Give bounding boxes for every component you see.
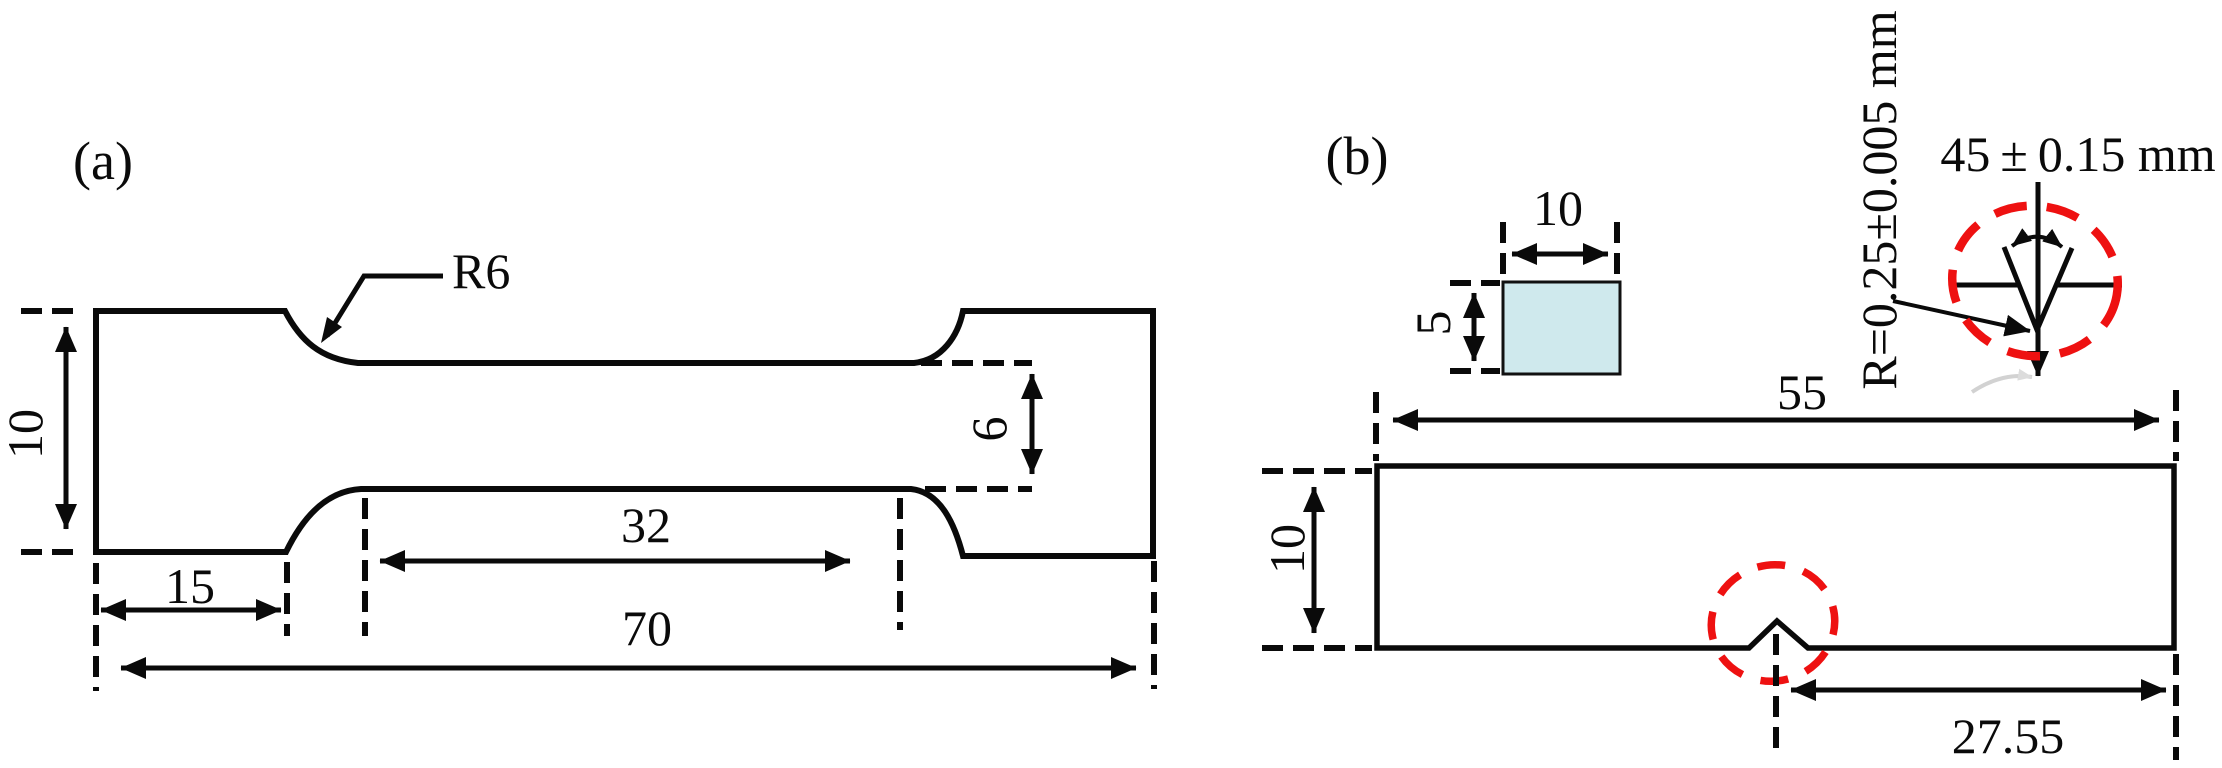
svg-text:10: 10 [1259, 524, 1315, 574]
svg-text:R6: R6 [452, 243, 510, 299]
extension dash vertical x1154 [1151, 561, 1157, 689]
notch center dashed line [1773, 634, 1779, 758]
extension dash square 5 bottom [1450, 368, 1500, 374]
extension dash square 10 left [1500, 222, 1506, 276]
dimension 32 arrow [380, 559, 850, 564]
svg-text:5: 5 [1405, 311, 1461, 336]
dimension square 5 arrow [1472, 293, 1477, 361]
svg-text:(a): (a) [73, 131, 133, 191]
dimension 6 arrow [1030, 374, 1035, 474]
svg-text:15: 15 [165, 558, 215, 614]
specimen outline (a) dogbone [96, 311, 1153, 556]
red dashed circle around notch [1698, 551, 1848, 695]
extension dash vertical x900 [897, 498, 903, 630]
extension dash gauge bottom right [925, 486, 1032, 492]
extension dash 55 left [1373, 392, 1379, 461]
dimension 70 arrow [121, 666, 1136, 671]
extension dash 10b bottom [1262, 645, 1372, 651]
extension dash right lower [2173, 654, 2179, 760]
specimen bar (b) with V-notch [1377, 466, 2174, 648]
dimension 10b arrow [1312, 487, 1317, 633]
notch detail vertical arrow 45deg [2036, 182, 2041, 376]
extension dash square 10 right [1614, 222, 1620, 276]
svg-text:10: 10 [1533, 180, 1583, 236]
notch detail angle arc [2012, 237, 2062, 247]
extension dash vertical x96 [93, 563, 99, 691]
svg-text:45 ± 0.15 mm: 45 ± 0.15 mm [1940, 126, 2215, 182]
svg-text:55: 55 [1777, 364, 1827, 420]
notch detail V arms [2004, 247, 2072, 330]
svg-text:32: 32 [621, 497, 671, 553]
dimension 15 arrow [101, 608, 281, 613]
svg-text:10: 10 [0, 409, 53, 459]
svg-text:27.55: 27.55 [1952, 708, 2065, 764]
svg-text:(b): (b) [1326, 126, 1389, 186]
dimension square 10 arrow [1512, 252, 1608, 257]
extension dash vertical x365 [362, 498, 368, 636]
leader R=0.25 [1893, 301, 2030, 331]
svg-text:6: 6 [961, 417, 1017, 442]
extension dash 10b top [1262, 468, 1372, 474]
dimension 10 (a) arrow [64, 327, 69, 529]
extension dash top-left [21, 308, 78, 314]
extension dash gauge top right [921, 360, 1032, 366]
cross-section square [1503, 282, 1620, 374]
extension dash vertical x287 [284, 562, 290, 636]
grey swoosh [1972, 376, 2032, 392]
svg-text:70: 70 [622, 600, 672, 656]
extension dash square 5 top [1450, 280, 1500, 286]
extension dash 55 right upper [2173, 390, 2179, 461]
svg-text:R=0.25±0.005 mm: R=0.25±0.005 mm [1851, 10, 1907, 389]
red dashed circle notch detail [1940, 193, 2130, 370]
dimension 55 arrow [1393, 418, 2159, 423]
extension dash bottom-left [21, 549, 78, 555]
dimension 27.55 arrow [1791, 688, 2166, 693]
notch detail surface line [1951, 283, 2122, 288]
leader R6 [327, 276, 443, 336]
notch detail V white fill [2004, 247, 2072, 330]
